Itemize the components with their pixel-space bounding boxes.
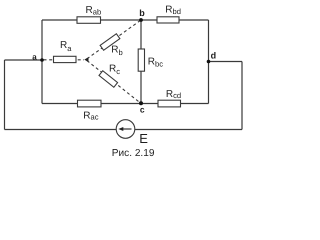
svg-text:Rb: Rb [111, 45, 122, 58]
svg-text:Рис. 2.19: Рис. 2.19 [112, 148, 155, 159]
node c [139, 101, 143, 105]
node d [207, 60, 211, 64]
wire left edge vertical [4, 60, 6, 130]
svg-text:Rc: Rc [109, 64, 120, 77]
wire bottom inner through node c [42, 103, 209, 105]
wire node d to right edge [209, 61, 243, 63]
svg-text:Rbd: Rbd [165, 5, 181, 17]
resistor Rc [99, 71, 118, 88]
source E arrow [118, 127, 131, 131]
svg-text:d: d [211, 51, 217, 61]
wire node a to left edge [5, 59, 43, 61]
wire right edge vertical [241, 62, 243, 130]
svg-text:Rcd: Rcd [166, 89, 181, 100]
svg-text:Ra: Ra [60, 40, 72, 53]
wire dashed star point to node c [87, 61, 141, 104]
node a [40, 58, 44, 62]
wire node b to node c vertical [140, 20, 142, 104]
resistor Rbd [157, 17, 179, 23]
node b [139, 18, 143, 22]
svg-text:c: c [140, 105, 145, 115]
resistor Rbc [138, 49, 144, 71]
star point arrow [84, 57, 88, 62]
resistor Rab [77, 17, 101, 24]
svg-text:Rab: Rab [86, 5, 102, 17]
source E [116, 120, 135, 139]
wire top a-corner to d-corner [42, 19, 209, 21]
svg-text:b: b [139, 8, 145, 18]
svg-text:a: a [32, 53, 37, 62]
resistor Rcd [158, 100, 181, 107]
resistor Rac [78, 100, 102, 107]
wire bottom through source E [5, 129, 243, 131]
wire dashed star point to node b [87, 20, 141, 59]
svg-text:E: E [139, 131, 148, 146]
wire dashed node a to star point [44, 59, 85, 61]
resistor Ra [54, 56, 77, 62]
wire left inner vertical through node a [41, 20, 43, 104]
svg-text:Rac: Rac [83, 110, 98, 121]
svg-text:Rbc: Rbc [148, 57, 163, 69]
resistor Rb [100, 34, 120, 51]
wire right inner vertical through node d [208, 20, 210, 104]
